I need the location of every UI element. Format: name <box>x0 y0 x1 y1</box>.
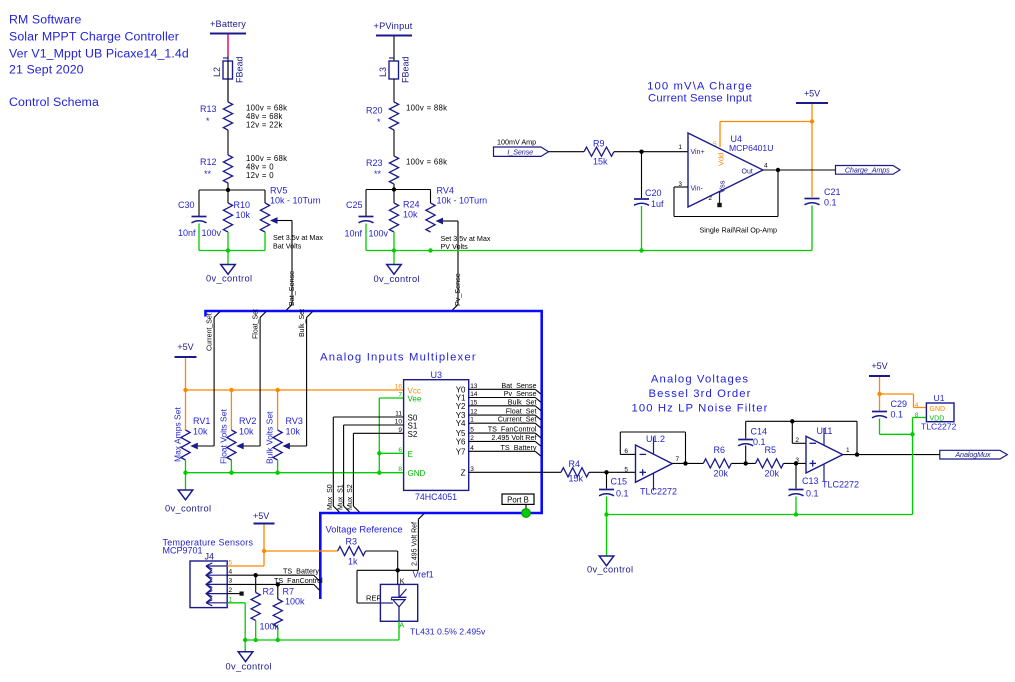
svg-text:A: A <box>399 621 404 630</box>
svg-text:Float Volts Set: Float Volts Set <box>219 409 229 464</box>
svg-text:Vdd: Vdd <box>717 153 726 166</box>
svg-text:1uf: 1uf <box>651 199 664 209</box>
svg-text:*: * <box>377 117 381 127</box>
svg-text:10k: 10k <box>239 427 254 437</box>
svg-text:100k: 100k <box>260 622 280 632</box>
svg-text:I_Sense: I_Sense <box>507 148 533 157</box>
svg-text:+5V: +5V <box>253 511 269 521</box>
svg-text:Y6: Y6 <box>456 437 466 446</box>
svg-text:0v_control: 0v_control <box>587 565 633 575</box>
svg-text:10nf: 10nf <box>178 228 196 238</box>
svg-text:**: ** <box>204 169 212 179</box>
svg-text:20k: 20k <box>765 469 780 479</box>
svg-text:100k: 100k <box>285 597 305 607</box>
svg-text:12: 12 <box>470 409 478 416</box>
svg-text:Bessel 3rd Order: Bessel 3rd Order <box>649 388 752 400</box>
svg-text:REF: REF <box>366 594 381 603</box>
svg-text:0.1: 0.1 <box>891 410 904 420</box>
svg-text:R9: R9 <box>593 139 605 149</box>
svg-text:100v: 100v <box>202 228 222 238</box>
svg-text:R12: R12 <box>200 157 217 167</box>
svg-text:RV5: RV5 <box>270 186 287 196</box>
svg-text:R24: R24 <box>403 200 420 210</box>
svg-text:Out: Out <box>742 169 753 176</box>
svg-text:Voltage Reference: Voltage Reference <box>326 524 403 535</box>
svg-text:Z: Z <box>461 468 466 477</box>
svg-text:2: 2 <box>470 435 474 442</box>
svg-text:Float_Set: Float_Set <box>253 309 260 339</box>
svg-text:L3: L3 <box>378 67 388 77</box>
svg-text:J4: J4 <box>205 552 215 562</box>
svg-text:U3: U3 <box>431 370 443 380</box>
svg-text:E: E <box>408 450 413 459</box>
svg-text:U1: U1 <box>934 393 945 403</box>
svg-text:Bat_Sense: Bat_Sense <box>287 271 296 306</box>
svg-text:TS_FanControl: TS_FanControl <box>274 576 323 585</box>
svg-text:C14: C14 <box>751 427 768 437</box>
svg-text:10k: 10k <box>286 427 301 437</box>
svg-text:1: 1 <box>678 144 682 151</box>
svg-text:20k: 20k <box>714 469 729 479</box>
svg-text:+PVinput: +PVinput <box>374 21 413 31</box>
svg-text:C25: C25 <box>346 200 363 210</box>
svg-text:Pv_Sense: Pv_Sense <box>453 273 462 306</box>
svg-text:0v_control: 0v_control <box>374 274 420 284</box>
svg-text:R20: R20 <box>366 106 383 116</box>
svg-text:RV4: RV4 <box>437 186 454 196</box>
svg-text:Single Rail\Rail Op-Amp: Single Rail\Rail Op-Amp <box>700 226 778 235</box>
svg-text:C30: C30 <box>178 200 195 210</box>
svg-text:Bulk Volts Set: Bulk Volts Set <box>265 411 275 464</box>
svg-text:1k: 1k <box>348 557 358 567</box>
svg-text:Vee: Vee <box>408 395 422 404</box>
svg-text:Current_Set: Current_Set <box>207 313 214 351</box>
svg-text:0v_control: 0v_control <box>165 504 211 514</box>
svg-text:Current Sense Input: Current Sense Input <box>648 93 753 105</box>
svg-text:AnalogMux: AnalogMux <box>954 450 991 459</box>
svg-text:C21: C21 <box>824 187 841 197</box>
svg-text:Port B: Port B <box>507 495 529 504</box>
svg-text:U1.2: U1.2 <box>646 434 665 444</box>
svg-text:Vin-: Vin- <box>691 186 704 193</box>
svg-text:Bat Volts: Bat Volts <box>273 242 302 251</box>
svg-text:TLC2272: TLC2272 <box>640 487 677 497</box>
svg-text:12v = 22k: 12v = 22k <box>246 121 283 130</box>
svg-text:10k: 10k <box>236 210 251 220</box>
svg-text:Y2: Y2 <box>456 402 466 411</box>
svg-text:8: 8 <box>398 466 402 473</box>
svg-text:7: 7 <box>676 456 680 463</box>
svg-text:+5V: +5V <box>804 89 820 99</box>
svg-text:Y7: Y7 <box>456 447 466 456</box>
svg-text:10k: 10k <box>403 210 418 220</box>
svg-text:1: 1 <box>846 447 850 454</box>
svg-text:Y4: Y4 <box>456 419 466 428</box>
svg-text:3: 3 <box>795 457 799 464</box>
svg-text:Vss: Vss <box>718 180 727 193</box>
svg-text:4: 4 <box>915 402 919 409</box>
svg-text:13: 13 <box>470 383 478 390</box>
svg-text:R6: R6 <box>714 445 726 455</box>
svg-text:15k: 15k <box>569 474 584 484</box>
svg-text:Mux_S2: Mux_S2 <box>347 484 354 510</box>
svg-text:TS_Battery: TS_Battery <box>283 567 319 576</box>
svg-text:RV1: RV1 <box>193 416 210 426</box>
svg-text:21 Sept 2020: 21 Sept 2020 <box>9 63 84 77</box>
svg-text:GND: GND <box>408 469 426 478</box>
svg-text:0.1: 0.1 <box>616 489 629 499</box>
svg-text:0v_control: 0v_control <box>226 662 272 672</box>
svg-text:RM Software: RM Software <box>9 13 81 27</box>
svg-text:100v: 100v <box>369 229 389 239</box>
svg-text:Analog Voltages: Analog Voltages <box>651 374 749 386</box>
svg-text:100mV Amp: 100mV Amp <box>497 138 536 147</box>
svg-text:4: 4 <box>764 163 768 170</box>
svg-text:GND: GND <box>930 406 946 413</box>
svg-text:12v = 0: 12v = 0 <box>246 171 274 180</box>
svg-text:0.1: 0.1 <box>806 489 819 499</box>
svg-text:R10: R10 <box>234 200 251 210</box>
svg-text:2: 2 <box>708 195 712 202</box>
svg-text:1: 1 <box>470 417 474 424</box>
svg-text:L2: L2 <box>212 67 222 77</box>
svg-text:S2: S2 <box>408 430 418 439</box>
svg-text:4: 4 <box>229 569 233 576</box>
svg-text:C15: C15 <box>611 477 628 487</box>
svg-text:Bulk_Set: Bulk_Set <box>299 309 306 337</box>
svg-text:MCP9701: MCP9701 <box>163 546 203 556</box>
svg-text:+Battery: +Battery <box>210 19 246 29</box>
svg-text:3: 3 <box>229 578 233 585</box>
svg-text:TLC2272: TLC2272 <box>822 480 859 490</box>
svg-text:5: 5 <box>624 467 628 474</box>
svg-text:0v_control: 0v_control <box>206 274 252 284</box>
svg-text:FBead: FBead <box>401 56 411 83</box>
svg-text:PV Volts: PV Volts <box>441 242 469 251</box>
svg-text:8: 8 <box>915 412 919 419</box>
svg-text:U11: U11 <box>817 426 833 436</box>
svg-text:100 mV\A Charge: 100 mV\A Charge <box>647 81 753 93</box>
svg-text:FBead: FBead <box>235 56 245 83</box>
svg-text:R2: R2 <box>263 587 275 597</box>
svg-text:TS_Battery: TS_Battery <box>501 443 537 452</box>
svg-text:Max Amps Set: Max Amps Set <box>173 407 183 462</box>
svg-text:Ver V1_Mppt UB Picaxe14_1.4d: Ver V1_Mppt UB Picaxe14_1.4d <box>9 47 189 61</box>
svg-text:100 Hz LP Noise Filter: 100 Hz LP Noise Filter <box>631 403 768 415</box>
svg-text:4: 4 <box>470 445 474 452</box>
svg-text:6: 6 <box>398 447 402 454</box>
svg-text:C13: C13 <box>802 476 819 486</box>
svg-text:10nf: 10nf <box>345 229 363 239</box>
svg-text:2.495 Volt Ref: 2.495 Volt Ref <box>412 522 419 566</box>
svg-text:7: 7 <box>398 392 402 399</box>
svg-text:Control Schema: Control Schema <box>9 95 99 109</box>
svg-text:R7: R7 <box>283 587 295 597</box>
svg-text:R3: R3 <box>346 537 358 547</box>
svg-text:TLC2272: TLC2272 <box>921 422 957 432</box>
svg-text:*: * <box>206 116 210 126</box>
svg-text:Vref1: Vref1 <box>413 570 434 580</box>
svg-text:16: 16 <box>395 384 403 391</box>
svg-text:100v = 68k: 100v = 68k <box>406 158 447 167</box>
svg-text:Current_Set: Current_Set <box>498 415 537 424</box>
svg-text:Analog Inputs Multiplexer: Analog Inputs Multiplexer <box>320 352 477 364</box>
svg-text:74HC4051: 74HC4051 <box>415 492 457 502</box>
svg-text:RV3: RV3 <box>286 416 303 426</box>
svg-text:+5V: +5V <box>177 342 193 352</box>
svg-text:C29: C29 <box>891 399 908 409</box>
svg-text:TL431 0.5% 2.495v: TL431 0.5% 2.495v <box>410 627 486 637</box>
svg-text:14: 14 <box>470 391 478 398</box>
svg-text:2: 2 <box>229 587 233 594</box>
svg-text:10k - 10Turn: 10k - 10Turn <box>437 196 488 206</box>
svg-text:0.1: 0.1 <box>824 198 837 208</box>
svg-text:R23: R23 <box>366 158 383 168</box>
svg-text:C20: C20 <box>645 188 662 198</box>
svg-text:2.495 Volt Ref: 2.495 Volt Ref <box>491 433 536 442</box>
svg-text:RV2: RV2 <box>239 416 256 426</box>
svg-text:Vin+: Vin+ <box>691 149 705 156</box>
svg-text:Solar MPPT Charge Controller: Solar MPPT Charge Controller <box>9 30 179 44</box>
svg-text:100v = 88k: 100v = 88k <box>406 104 447 113</box>
svg-text:Bulk_Set: Bulk_Set <box>508 397 537 406</box>
svg-text:15k: 15k <box>593 157 608 167</box>
svg-text:+5V: +5V <box>871 361 887 371</box>
svg-text:Mux_S1: Mux_S1 <box>337 484 344 510</box>
svg-text:R13: R13 <box>200 104 217 114</box>
svg-text:MCP6401U: MCP6401U <box>729 143 773 153</box>
svg-text:Mux_S0: Mux_S0 <box>327 484 334 510</box>
svg-text:**: ** <box>374 169 382 179</box>
svg-text:10k - 10Turn: 10k - 10Turn <box>270 196 321 206</box>
svg-text:R5: R5 <box>765 445 777 455</box>
svg-text:15: 15 <box>470 399 478 406</box>
svg-text:10k: 10k <box>193 427 208 437</box>
svg-text:R4: R4 <box>569 459 581 469</box>
svg-text:Charge_Amps: Charge_Amps <box>845 165 890 174</box>
svg-text:2: 2 <box>795 437 799 444</box>
svg-text:5: 5 <box>470 427 474 434</box>
